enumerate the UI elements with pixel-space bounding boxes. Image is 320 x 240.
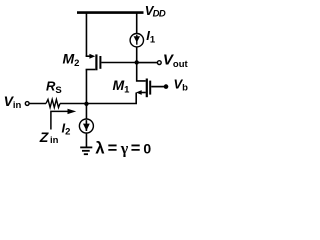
output node junction <box>135 60 139 64</box>
wire output node to M1 drain <box>137 62 146 81</box>
wire VDD rail to I1 <box>136 13 138 34</box>
current source I2 <box>79 119 93 133</box>
wire output node to Vout terminal <box>137 62 158 64</box>
wire RS to input node <box>60 103 86 105</box>
wire Vin to RS <box>30 103 47 105</box>
Vb terminal dot <box>164 84 169 89</box>
wire M2 gate to output node <box>101 62 136 64</box>
bottom wire input node to M1 source <box>86 103 137 105</box>
Vin terminal <box>25 102 29 106</box>
input node junction <box>84 102 88 106</box>
svg-text:λ=γ=0: λ=γ=0 <box>95 139 151 157</box>
transistor M1 (NMOS, left-facing) <box>136 79 150 98</box>
resistor RS <box>46 99 60 107</box>
wire VDD rail to M2 source <box>85 13 87 57</box>
current source I1 <box>130 34 143 47</box>
wire I1 to output node <box>136 47 138 62</box>
VDD rail <box>77 11 144 14</box>
wire input node to I2 <box>85 104 87 120</box>
Zin arrow <box>51 109 76 130</box>
transistor M2 (PMOS, left-facing) <box>86 54 101 71</box>
wire M1 source down to bottom wire <box>135 93 137 105</box>
wire I2 to ground <box>85 133 87 147</box>
ground <box>80 147 92 154</box>
wire M1 gate to Vb <box>151 86 165 88</box>
wire M2 drain to input node <box>85 70 87 105</box>
Vout terminal <box>157 61 161 65</box>
